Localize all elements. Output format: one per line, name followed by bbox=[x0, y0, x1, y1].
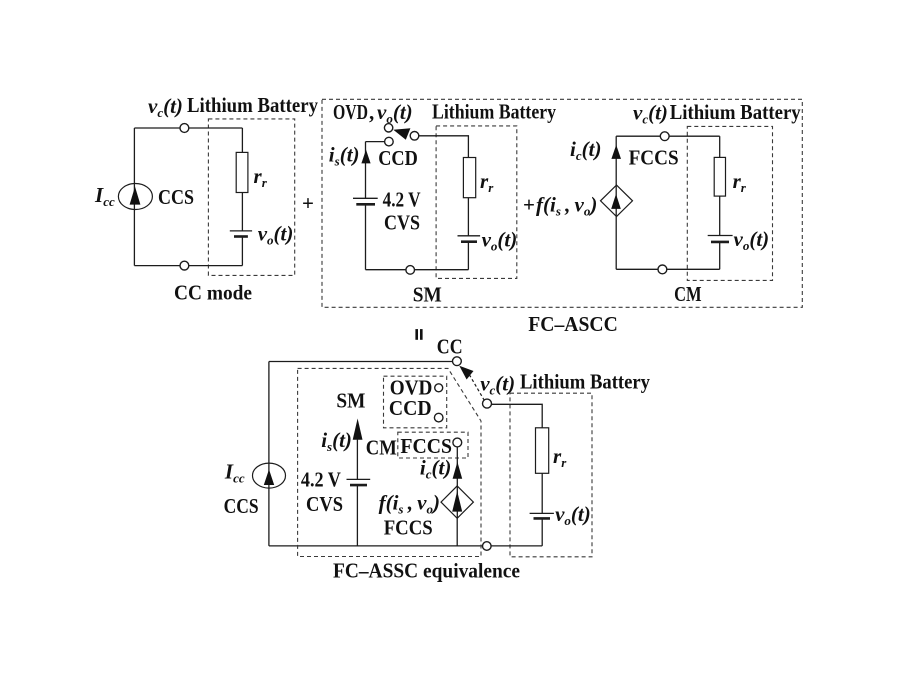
label CCD (circuit 4) bbox=[389, 396, 432, 420]
battery v_o (circuit 4) bbox=[530, 513, 554, 518]
wire left (circuit 4) bbox=[268, 362, 270, 546]
svg-text:CCS: CCS bbox=[158, 185, 194, 209]
resistor r_r (circuit 2) bbox=[463, 158, 475, 198]
wire from common node to right branch (circuit 2) bbox=[419, 136, 469, 158]
label r_r (circuit 4) bbox=[553, 444, 567, 470]
node v_c(t) label (circuit 4) bbox=[480, 372, 515, 398]
resistor r_r (circuit 1) bbox=[236, 152, 248, 192]
svg-text:vc(t): vc(t) bbox=[148, 94, 183, 120]
label 4.2 V (circuit 2) bbox=[383, 188, 421, 212]
wire right branch lower (circuit 2) bbox=[467, 242, 469, 270]
svg-text:4.2 V: 4.2 V bbox=[301, 467, 341, 491]
wire right branch middle (circuit 2) bbox=[467, 198, 469, 236]
wire FCCS branch lower (circuit 4) bbox=[456, 518, 458, 546]
svg-text:FCCS: FCCS bbox=[384, 516, 433, 540]
svg-text:+: + bbox=[523, 193, 535, 217]
label v_o(t) (circuit 1) bbox=[258, 222, 294, 248]
svg-text:ic(t): ic(t) bbox=[570, 137, 601, 163]
dependent source FCCS diamond (circuit 3) bbox=[601, 185, 633, 216]
dependent source arrow (circuit 4) bbox=[452, 491, 462, 511]
label CCD (circuit 2) bbox=[378, 146, 418, 170]
dashed battery box (circuit 3) bbox=[687, 126, 772, 280]
svg-text:vo(t): vo(t) bbox=[734, 227, 770, 253]
node CCD contact (circuit 4) bbox=[434, 413, 443, 422]
node switch lower (circuit 4) bbox=[483, 399, 492, 408]
node top terminal (circuit 1) bbox=[180, 124, 189, 133]
label FCCS in box (circuit 4) bbox=[400, 434, 452, 458]
wire right branch middle (circuit 4) bbox=[541, 473, 543, 513]
wire right branch lower (circuit 3) bbox=[719, 242, 721, 269]
label i_c(t) (circuit 4) bbox=[420, 456, 451, 482]
current source CCS ellipse (circuit 1) bbox=[118, 184, 152, 210]
label v_o(t) (circuit 3) bbox=[734, 227, 770, 253]
svg-text:CCD: CCD bbox=[389, 396, 432, 420]
dashed box FC-ASCC outer bbox=[322, 99, 802, 307]
label CVS (circuit 2) bbox=[384, 211, 420, 235]
label Lithium Battery (circuit 4) bbox=[520, 370, 650, 394]
label v_o(t) (circuit 2) bbox=[482, 228, 518, 254]
label CM (circuit 3) bbox=[674, 282, 702, 306]
label v_o(t) (circuit 4) bbox=[555, 502, 591, 528]
equivalence sign bbox=[415, 329, 422, 340]
current arrow i_c (circuit 3) bbox=[611, 145, 621, 159]
dashed FCCS box (circuit 4) bbox=[398, 432, 468, 458]
current arrow i_c (circuit 4) bbox=[453, 462, 463, 479]
svg-text:SM: SM bbox=[336, 389, 365, 413]
label Lithium Battery (circuit 3) bbox=[670, 100, 801, 124]
svg-text:Lithium Battery: Lithium Battery bbox=[520, 370, 650, 394]
wire top (circuit 3) bbox=[616, 135, 720, 137]
wire bottom (circuit 4) bbox=[269, 545, 542, 547]
wire left branch lower (circuit 3) bbox=[615, 217, 617, 270]
wire right branch middle (circuit 3) bbox=[719, 196, 721, 235]
label CC (switch, circuit 4) bbox=[437, 334, 463, 358]
current arrow i_s (circuit 2) bbox=[361, 150, 370, 164]
label FC-ASSC equivalence bbox=[333, 559, 520, 583]
wire bottom (circuit 2) bbox=[366, 269, 469, 271]
switch OVD contact node (circuit 2) bbox=[384, 124, 392, 132]
label CVS (circuit 4) bbox=[306, 492, 343, 516]
wire left (circuit 1) bbox=[133, 128, 135, 266]
svg-text:CC mode: CC mode bbox=[174, 281, 252, 305]
svg-text:OVD: OVD bbox=[333, 100, 368, 124]
node top terminal (circuit 3) bbox=[660, 132, 669, 141]
svg-text:CVS: CVS bbox=[306, 492, 343, 516]
plus sign and f(i_s,v_o) label between circuit 2 and 3 bbox=[523, 193, 597, 219]
current source arrow (circuit 4) bbox=[264, 469, 274, 485]
dashed battery box (circuit 1) bbox=[208, 119, 294, 276]
node bottom terminal (circuit 1) bbox=[180, 261, 189, 270]
wire from CCD contact to left branch (circuit 2) bbox=[366, 141, 385, 143]
dashed equivalence group box (circuit 4) bbox=[298, 368, 481, 556]
node CC switch top (circuit 4) bbox=[453, 357, 462, 366]
dashed battery box (circuit 4) bbox=[510, 393, 592, 557]
svg-text:+: + bbox=[302, 191, 314, 215]
label FCCS (circuit 3) bbox=[629, 146, 679, 170]
svg-text:CVS: CVS bbox=[384, 211, 420, 235]
current arrow i_s (circuit 4) bbox=[353, 419, 363, 440]
node bottom terminal (circuit 2) bbox=[406, 266, 415, 275]
svg-text:CC: CC bbox=[437, 334, 463, 358]
wire bottom (circuit 1) bbox=[134, 265, 242, 267]
label i_s(t) (circuit 4) bbox=[321, 428, 352, 454]
node v_c(t) label (circuit 1) bbox=[148, 94, 183, 120]
wire right lower (circuit 1) bbox=[241, 237, 243, 266]
dashed battery box (circuit 2) bbox=[436, 126, 517, 279]
wire right branch lower (circuit 4) bbox=[541, 518, 543, 546]
svg-text:vo(t): vo(t) bbox=[377, 100, 413, 126]
node v_c(t) label (circuit 3) bbox=[633, 101, 668, 127]
switch CCD contact node (circuit 2) bbox=[385, 137, 394, 146]
label OVD (circuit 4) bbox=[390, 376, 433, 400]
wire left branch upper (circuit 2) bbox=[365, 142, 367, 199]
svg-text:vo(t): vo(t) bbox=[555, 502, 591, 528]
svg-text:ic(t): ic(t) bbox=[420, 456, 451, 482]
node bottom (circuit 4) bbox=[483, 542, 492, 551]
switch blade line (circuit 4) bbox=[469, 375, 484, 401]
dashed OVD CCD box (circuit 4) bbox=[384, 376, 447, 428]
wire top (circuit 1) bbox=[134, 127, 242, 129]
switch blade arrow (circuit 4) bbox=[459, 366, 473, 380]
node bottom terminal (circuit 3) bbox=[658, 265, 667, 274]
label Lithium Battery (circuit 2) bbox=[432, 100, 556, 124]
label FCCS under diamond (circuit 4) bbox=[384, 516, 433, 540]
label r_r (circuit 1) bbox=[254, 164, 268, 190]
wire CVS branch lower (circuit 4) bbox=[356, 485, 358, 546]
switch common node (circuit 2) bbox=[410, 132, 419, 141]
label r_r (circuit 2) bbox=[480, 169, 494, 195]
label f(i_s, v_o) (circuit 4) bbox=[379, 491, 440, 517]
label CC mode bbox=[174, 281, 252, 305]
label CCS (circuit 1) bbox=[158, 185, 194, 209]
node OVD contact (circuit 4) bbox=[435, 384, 443, 392]
wire right upper (circuit 1) bbox=[241, 128, 243, 152]
label I_cc (circuit 4) bbox=[224, 460, 245, 486]
wire from switch to right branch (circuit 4) bbox=[492, 404, 543, 428]
switch blade arrow (circuit 2) bbox=[393, 128, 410, 140]
label FC-ASCC bbox=[528, 312, 618, 336]
wire left branch upper (circuit 3) bbox=[615, 136, 617, 216]
node FCCS contact (circuit 4) bbox=[453, 438, 462, 447]
current source CCS ellipse (circuit 4) bbox=[253, 463, 286, 488]
svg-text:FC–ASCC: FC–ASCC bbox=[528, 312, 618, 336]
label CCS (circuit 4) bbox=[224, 494, 259, 518]
svg-text:vc(t): vc(t) bbox=[633, 101, 668, 127]
dependent source arrow (circuit 3) bbox=[611, 194, 621, 209]
resistor r_r (circuit 3) bbox=[714, 157, 725, 196]
label i_s(t) (circuit 2) bbox=[329, 143, 360, 169]
plus sign between circuit 1 and 2 bbox=[302, 191, 314, 215]
svg-text:is(t): is(t) bbox=[321, 428, 352, 454]
label i_c(t) (circuit 3) bbox=[570, 137, 601, 163]
label I_cc (circuit 1) bbox=[94, 183, 115, 209]
wire CVS branch (circuit 4) bbox=[356, 439, 358, 479]
wire top (circuit 4) bbox=[269, 361, 453, 363]
wire left branch lower (circuit 2) bbox=[365, 204, 367, 269]
wire right branch upper (circuit 3) bbox=[719, 136, 721, 157]
current source arrow (circuit 1) bbox=[130, 187, 141, 205]
svg-text:CCS: CCS bbox=[224, 494, 259, 518]
wire FCCS branch upper (circuit 4) bbox=[456, 447, 458, 518]
label 4.2 V (circuit 4) bbox=[301, 467, 341, 491]
battery v_o (circuit 1) bbox=[230, 231, 252, 237]
svg-text:is(t): is(t) bbox=[329, 143, 360, 169]
svg-text:CM: CM bbox=[674, 282, 702, 306]
svg-text:Lithium Battery: Lithium Battery bbox=[187, 93, 318, 117]
wire right middle (circuit 1) bbox=[241, 193, 243, 231]
resistor r_r (circuit 4) bbox=[536, 428, 549, 474]
battery CVS 4.2V (circuit 2) bbox=[353, 198, 378, 204]
svg-text:4.2 V: 4.2 V bbox=[383, 188, 421, 212]
label CM (circuit 4) bbox=[366, 436, 397, 460]
label SM (circuit 2) bbox=[413, 283, 442, 307]
svg-text:Lithium Battery: Lithium Battery bbox=[670, 100, 801, 124]
battery CVS 4.2V (circuit 4) bbox=[347, 479, 371, 485]
svg-text:,: , bbox=[369, 100, 374, 124]
svg-text:vo(t): vo(t) bbox=[258, 222, 294, 248]
svg-text:SM: SM bbox=[413, 283, 442, 307]
svg-text:CM: CM bbox=[366, 436, 397, 460]
label OVD, v_o(t) (circuit 2) bbox=[333, 100, 413, 126]
label Lithium Battery (circuit 1) bbox=[187, 93, 318, 117]
dependent source FCCS diamond (circuit 4) bbox=[441, 486, 473, 518]
label SM (circuit 4) bbox=[336, 389, 365, 413]
svg-text:CCD: CCD bbox=[378, 146, 418, 170]
svg-text:FC–ASSC equivalence: FC–ASSC equivalence bbox=[333, 559, 520, 583]
svg-text:vo(t): vo(t) bbox=[482, 228, 518, 254]
svg-text:Lithium Battery: Lithium Battery bbox=[432, 100, 556, 124]
battery v_o (circuit 2) bbox=[458, 236, 481, 242]
svg-text:FCCS: FCCS bbox=[629, 146, 679, 170]
battery v_o (circuit 3) bbox=[708, 236, 733, 242]
label r_r (circuit 3) bbox=[733, 169, 747, 195]
wire bottom (circuit 3) bbox=[616, 268, 720, 270]
